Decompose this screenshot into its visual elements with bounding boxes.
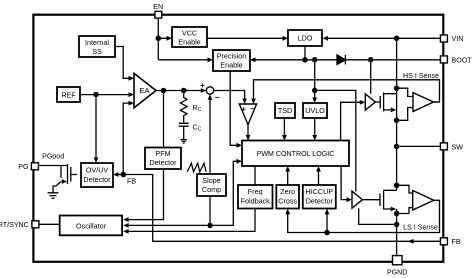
node LS supply branch	[313, 88, 317, 92]
svg-text:FB: FB	[452, 238, 461, 246]
wire LS driver supply	[315, 90, 356, 191]
node LS sense tap top	[395, 183, 399, 187]
ground below CC	[180, 140, 187, 144]
svg-text:SW: SW	[452, 143, 464, 151]
summing junction node	[206, 87, 213, 94]
svg-text:PWM CONTROL LOGIC: PWM CONTROL LOGIC	[257, 150, 335, 158]
wire EA output to summing node	[156, 90, 202, 92]
node HS driver supply tap	[369, 58, 373, 62]
arrow into EA input 1	[129, 76, 135, 81]
arrow into Precision Enable left	[208, 57, 214, 62]
svg-text:EN: EN	[153, 3, 163, 11]
svg-text:OV/UV: OV/UV	[86, 165, 109, 174]
arrow LS FET source	[391, 207, 397, 212]
node EA out PFM tap	[161, 88, 165, 92]
svg-text:−: −	[215, 93, 220, 102]
svg-text:RC: RC	[193, 103, 202, 113]
wire LS sense tap top to amp	[397, 185, 413, 193]
arrow into OV/UV right	[113, 172, 119, 177]
diode bootstrap	[337, 55, 345, 65]
svg-text:LDO: LDO	[298, 34, 313, 43]
svg-text:−: −	[250, 104, 255, 113]
wire LS driver ground	[359, 208, 397, 224]
block PFM Detector	[145, 148, 181, 170]
arrow into UVLO top	[312, 98, 317, 104]
svg-text:HICCUP: HICCUP	[306, 187, 334, 196]
triangles	[134, 73, 434, 210]
block OV/UV Detector	[81, 163, 113, 187]
node EN junction	[156, 36, 160, 40]
pin VIN	[440, 35, 447, 42]
arrow into HICCUP bottom	[325, 209, 330, 215]
node HICCUP bottom tap	[325, 230, 329, 234]
block Freq Foldback	[238, 185, 273, 209]
block PWM CONTROL LOGIC	[242, 141, 349, 167]
wire summing node to PWM comparator plus input	[214, 91, 245, 100]
svg-text:Enable: Enable	[220, 61, 242, 70]
wire LS sense tap bottom to amp	[397, 208, 413, 214]
wire VCC rail to BOOT	[246, 59, 441, 61]
arrow into EA input 2	[129, 92, 135, 97]
boxes	[57, 27, 349, 235]
wire SW node vertical	[396, 94, 398, 191]
arrow into Zero Cross bottom	[285, 209, 290, 215]
wire HS sense tap top to amp	[397, 88, 413, 96]
arrow TSD into PWM	[282, 135, 287, 141]
wire PWM logic up to HS driver	[341, 102, 361, 140]
svg-text:Detector: Detector	[83, 175, 111, 184]
svg-text:VIN: VIN	[452, 35, 464, 43]
node REF branch	[94, 93, 98, 97]
block Zero Cross	[276, 185, 299, 209]
svg-text:Precision: Precision	[217, 52, 247, 61]
chip outline border	[33, 15, 443, 262]
svg-text:PGood: PGood	[42, 152, 64, 160]
svg-text:Internal: Internal	[85, 38, 109, 47]
wire RT/SYNC to oscillator	[39, 223, 61, 225]
arrow into VCC Enable	[167, 36, 173, 41]
block Slope Comp	[197, 174, 226, 196]
node UVLO rail	[313, 58, 317, 62]
node slope comp clock tap	[208, 223, 212, 227]
pin RT/SYNC	[32, 221, 39, 228]
arrow into HS driver	[360, 100, 366, 105]
ground PGood	[48, 193, 59, 198]
labels: component values	[193, 103, 202, 133]
node HS sense tap top	[395, 86, 399, 90]
svg-text:LS I Sense: LS I Sense	[403, 224, 438, 232]
svg-text:SS: SS	[92, 47, 102, 56]
wire VIN down to HS FET drain	[396, 38, 398, 93]
arrows	[62, 36, 414, 244]
wire REF to EA input 2	[80, 94, 130, 96]
svg-text:+: +	[200, 81, 205, 90]
wire slope comp up into summing node	[209, 99, 211, 175]
block UVLO	[303, 103, 327, 118]
block REF	[57, 87, 80, 102]
svg-text:PFM: PFM	[155, 149, 170, 158]
arrow into comparator plus	[242, 99, 247, 105]
transistor LS FET	[362, 190, 396, 209]
wire EN down to VCC/Precision Enable	[158, 18, 208, 60]
block Oscillator	[60, 216, 122, 236]
svg-text:Detector: Detector	[306, 196, 334, 205]
arrow HICCUP into PWM bottom	[316, 166, 321, 172]
svg-text:Comp: Comp	[202, 185, 221, 194]
svg-text:HS I Sense: HS I Sense	[403, 72, 439, 80]
capacitor CC	[179, 123, 189, 139]
node LS source junction	[395, 211, 399, 215]
arrow Zero Cross into PWM bottom	[285, 166, 290, 172]
wire Internal SS to EA input 1	[115, 47, 130, 79]
node HS sense tap bottom	[395, 118, 399, 122]
node VIN branch	[395, 36, 399, 40]
svg-text:REF: REF	[61, 90, 76, 99]
svg-text:Slope: Slope	[202, 176, 220, 185]
node FB branch	[121, 172, 125, 176]
svg-text:Enable: Enable	[178, 38, 200, 47]
block Internal SS	[79, 36, 115, 57]
arrow comparator out into PWM	[246, 135, 251, 141]
pin PGND	[393, 256, 403, 265]
wire UVLO to PWM logic	[314, 118, 316, 136]
arrow into Precision Enable right	[250, 57, 256, 62]
block TSD	[275, 103, 295, 118]
svg-text:BOOT: BOOT	[452, 56, 473, 64]
wire VCC rail down to UVLO	[314, 60, 316, 99]
arrow HS FET source	[391, 108, 397, 113]
wire HS sense tap bottom to amp	[397, 108, 413, 121]
wire REF branch down to OV/UV top	[95, 95, 97, 159]
arrow into summing node left	[201, 88, 207, 93]
wire HICCUP up to PWM logic	[318, 170, 320, 185]
pin FB	[440, 238, 447, 245]
wire HICCUP bottom feed	[326, 213, 328, 232]
svg-text:Freq: Freq	[248, 187, 263, 196]
arrow PGood FET source	[62, 179, 68, 184]
node SW junction	[395, 144, 399, 148]
arrow into oscillator 3	[123, 229, 129, 234]
wire PWM logic down to LS driver	[341, 166, 347, 200]
arrow into LS driver	[347, 197, 353, 202]
wire LS source down to PGND	[396, 209, 398, 256]
op-amp HS I sense	[413, 93, 434, 112]
labels: block names	[61, 29, 334, 231]
arrow into oscillator 2	[123, 223, 129, 228]
wire Precision Enable down to PWM logic left	[230, 71, 238, 145]
wire LS amp output to zero cross line	[288, 200, 440, 232]
pin BOOT	[440, 56, 447, 63]
svg-text:+: +	[242, 105, 247, 114]
arrow into OV/UV top	[94, 158, 99, 164]
wire SW to pin	[397, 145, 441, 147]
comparator PWM	[239, 104, 256, 125]
wire PFM Detector to oscillator	[127, 169, 163, 220]
wire LDO down to VCC rail	[304, 46, 306, 60]
labels: comparator signs	[242, 104, 256, 114]
wire slope comp bottom to clock line	[209, 196, 211, 225]
wire PG to PGood FET	[39, 165, 68, 167]
waveform sawtooth	[187, 163, 206, 172]
wire PWM logic to Freq Foldback	[254, 166, 256, 185]
pin SW	[440, 143, 447, 150]
wire FB pin line across bottom	[118, 175, 441, 242]
svg-text:UVLO: UVLO	[305, 106, 325, 115]
svg-text:Foldback: Foldback	[241, 196, 271, 205]
wire clock line PWM left to oscillator	[127, 161, 237, 225]
pin EN	[155, 11, 162, 18]
wire HS amp output to sense line	[434, 101, 440, 103]
arrow into EA input 3	[129, 101, 135, 106]
wire EA out down to PFM Detector	[163, 91, 165, 148]
arrow into PWM left 2	[237, 159, 243, 164]
block Precision Enable	[213, 50, 250, 71]
arrow into oscillator 1	[123, 217, 129, 222]
arrow into comparator minus	[251, 99, 256, 105]
arrow UVLO into PWM	[312, 135, 317, 141]
svg-text:FB: FB	[127, 178, 136, 186]
node LDO output on rail	[303, 58, 307, 62]
op-amp EA	[134, 73, 156, 107]
svg-text:TSD: TSD	[278, 106, 292, 115]
wire VCC Enable to LDO	[207, 37, 284, 39]
arrow into PWM left 1	[237, 143, 243, 148]
arrow into LDO left	[283, 36, 289, 41]
svg-text:Zero: Zero	[280, 187, 295, 196]
svg-text:CC: CC	[193, 122, 202, 132]
block LDO	[288, 30, 322, 46]
resistor RC	[180, 91, 187, 123]
wire comparator output to PWM logic	[247, 125, 249, 137]
wire FB to EA input 3	[123, 103, 130, 174]
transistor PGood FET	[53, 164, 77, 193]
svg-text:RT/SYNC: RT/SYNC	[0, 221, 29, 229]
arrow into summing node bottom	[208, 94, 213, 100]
svg-text:VCC: VCC	[182, 29, 197, 38]
block VCC Enable	[172, 27, 207, 47]
svg-text:PGND: PGND	[387, 269, 408, 277]
svg-text:EA: EA	[139, 86, 150, 95]
wire Zero Cross up to PWM logic	[287, 170, 289, 185]
arrow into LDO right	[323, 36, 329, 41]
wire HS driver supply	[370, 60, 372, 94]
block HICCUP Detector	[303, 185, 336, 209]
buffer LS driver	[352, 191, 362, 208]
labels: summing node signs	[200, 81, 220, 102]
svg-text:PG: PG	[18, 163, 28, 171]
svg-text:Detector: Detector	[149, 158, 177, 167]
arrow FB direction	[408, 239, 414, 244]
buffer HS driver	[365, 94, 375, 110]
wire HS I Sense line to comparator minus input	[254, 80, 440, 102]
op-amp LS I sense	[413, 191, 434, 211]
wire VIN to LDO	[327, 37, 440, 39]
svg-text:Cross: Cross	[278, 196, 297, 205]
node EA out RC tap	[182, 88, 186, 92]
node LS driver ground tie	[395, 222, 399, 226]
transistor HS FET	[375, 93, 396, 112]
pin PG	[31, 163, 38, 170]
svg-text:Oscillator: Oscillator	[76, 221, 107, 230]
wire TSD to PWM logic	[283, 118, 285, 136]
wire Freq Foldback to oscillator	[127, 209, 255, 232]
